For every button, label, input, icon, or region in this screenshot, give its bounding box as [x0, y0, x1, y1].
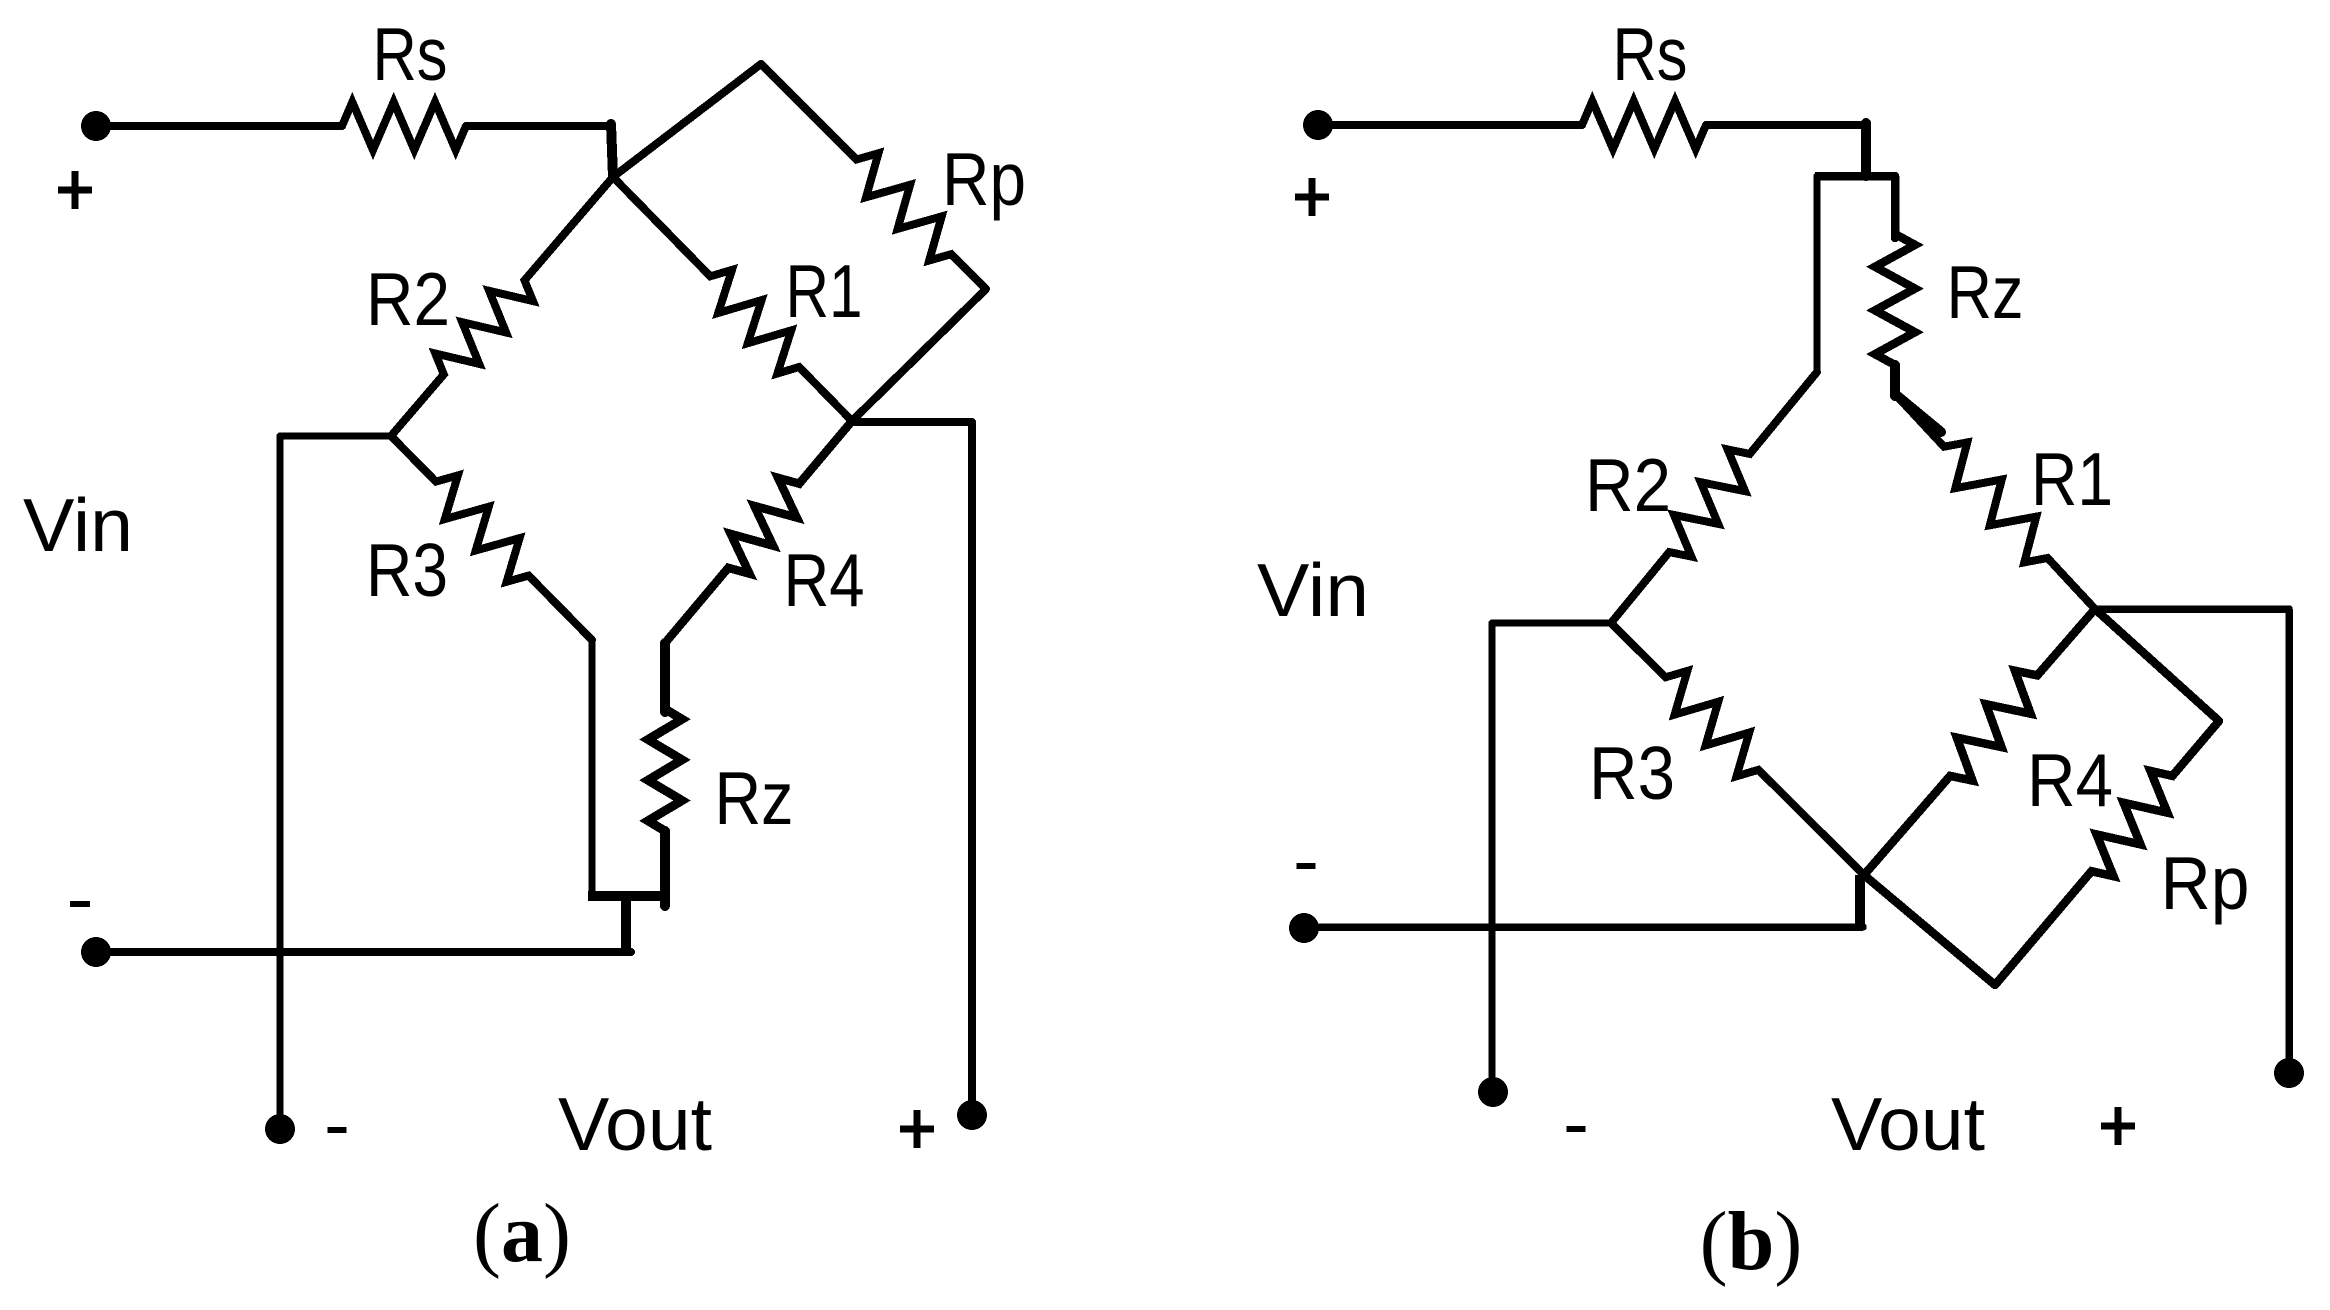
wire left branch down (b)	[1489, 623, 1496, 1092]
wire Rz top lead (b)	[1891, 176, 1900, 238]
svg-text:R1: R1	[2031, 437, 2113, 521]
svg-text:R3: R3	[1589, 731, 1675, 815]
node Vin- terminal (a)	[81, 937, 111, 967]
svg-text:R3: R3	[366, 528, 448, 612]
wire corner down (b)	[1861, 123, 1871, 176]
svg-text:(b): (b)	[1700, 1195, 1803, 1288]
label minus Vout- (b)	[1567, 1126, 1586, 1132]
svg-text:Rs: Rs	[373, 12, 448, 96]
node Vout- terminal (b)	[1478, 1077, 1508, 1107]
wire Rz to R1 thick lead (b)	[1895, 394, 1941, 432]
svg-text:R2: R2	[366, 257, 450, 341]
resistor Rs (b)	[1582, 101, 1706, 149]
resistor R1 (b)	[1895, 394, 2095, 609]
svg-text:Vin: Vin	[23, 483, 133, 567]
resistor Rz (b)	[1875, 234, 1915, 365]
wire right branch down (b)	[2285, 609, 2293, 1073]
resistor Rs (a)	[342, 102, 466, 150]
resistor R2 (b)	[1611, 372, 1817, 623]
wire left branch down (a)	[277, 436, 284, 1129]
wire Vin+ to Rs (a)	[96, 122, 342, 130]
wire Vin- horizontal (b)	[1304, 923, 1863, 931]
svg-text:Vout: Vout	[1831, 1082, 1985, 1166]
node Vout+ terminal (b)	[2274, 1058, 2304, 1088]
wire bridge right node to right branch (a)	[852, 418, 972, 426]
resistor R4 (b)	[1864, 609, 2095, 875]
wire step to output wire (a)	[621, 896, 631, 952]
svg-text:Rz: Rz	[715, 756, 794, 840]
wire Rp corner to bridge right node (a)	[852, 289, 986, 421]
svg-text:Rs: Rs	[1613, 12, 1688, 96]
svg-text:R1: R1	[786, 249, 863, 333]
svg-text:Rp: Rp	[2161, 841, 2250, 925]
label plus Vin+ (a)	[58, 171, 92, 209]
wire Rz bottom lead (b)	[1890, 365, 1900, 396]
resistor R3 (a)	[391, 436, 592, 640]
svg-text:R4: R4	[2027, 738, 2113, 822]
wire X node connector down (b)	[1855, 875, 1865, 929]
node Vin+ terminal (a)	[81, 111, 111, 141]
wire bridge left node to left branch (a)	[280, 433, 391, 440]
svg-text:R4: R4	[784, 538, 865, 622]
svg-text:R2: R2	[1585, 443, 1671, 527]
svg-text:Vout: Vout	[558, 1082, 712, 1166]
node Vout+ terminal (a)	[957, 1100, 987, 1130]
svg-text:Rp: Rp	[942, 137, 1026, 221]
node Vout- terminal (a)	[265, 1114, 295, 1144]
junction bar at bridge bottom (a)	[588, 891, 668, 901]
wire R3 lead down (a)	[589, 640, 596, 895]
resistor Rp (a)	[761, 64, 986, 289]
label minus Vin- (a)	[70, 901, 90, 907]
wire Vin- horizontal (a)	[96, 948, 631, 956]
resistor R2 (a)	[391, 177, 613, 436]
label plus Vout+ (a)	[900, 1110, 934, 1148]
wire left branch of top node (b)	[1814, 176, 1821, 372]
node Vin- terminal (b)	[1289, 913, 1319, 943]
wire bridge left node to left branch (b)	[1492, 620, 1611, 627]
wire Rs to top corner (a)	[466, 122, 610, 130]
label minus Vin- (b)	[1297, 863, 1316, 869]
wire corner down to bridge top node (a)	[611, 124, 613, 177]
svg-text:(a): (a)	[473, 1187, 571, 1280]
node Vin+ terminal (b)	[1303, 110, 1333, 140]
resistor R1 (a)	[613, 177, 852, 421]
wire bridge right node to right branch (b)	[2095, 605, 2289, 613]
label plus Vout+ (b)	[2101, 1107, 2135, 1145]
label plus Vin+ (b)	[1295, 178, 1329, 216]
junction bar top (b)	[1815, 172, 1894, 181]
svg-text:Vin: Vin	[1257, 548, 1369, 632]
resistor Rz (a)	[648, 709, 682, 831]
wire bridge top node to Rp corner (a)	[613, 64, 761, 177]
label minus Vout- (a)	[328, 1127, 347, 1133]
wire Rz bottom lead (a)	[660, 831, 670, 906]
wire Rp corner to X node (b)	[1864, 875, 1995, 985]
wire right branch down (a)	[968, 422, 976, 1115]
wire Rs to corner (b)	[1706, 121, 1862, 129]
resistor R3 (b)	[1611, 623, 1864, 875]
resistor R4 (a)	[665, 421, 852, 643]
wire bridge right node to Rp corner (b)	[2095, 609, 2219, 721]
resistor Rp (b)	[1995, 721, 2219, 985]
svg-text:Rz: Rz	[1947, 250, 2024, 334]
wire Vin+ to Rs (b)	[1318, 121, 1582, 129]
wire R4 to Rz (a)	[660, 643, 670, 712]
